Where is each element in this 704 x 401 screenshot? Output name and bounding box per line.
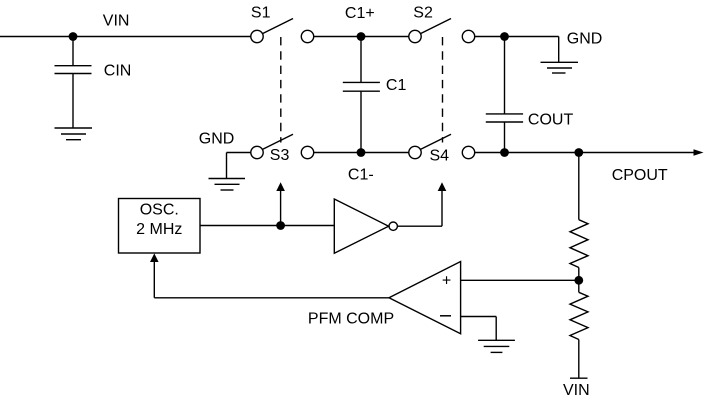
svg-text:CPOUT: CPOUT — [612, 167, 668, 184]
svg-text:COUT: COUT — [528, 112, 574, 129]
svg-text:VIN: VIN — [563, 382, 590, 399]
svg-text:2 MHz: 2 MHz — [136, 221, 182, 238]
svg-text:CIN: CIN — [104, 62, 132, 79]
svg-text:+: + — [442, 273, 451, 290]
svg-text:GND: GND — [567, 31, 603, 48]
svg-text:OSC.: OSC. — [140, 202, 179, 219]
svg-text:S1: S1 — [251, 4, 271, 21]
svg-text:S4: S4 — [430, 148, 450, 165]
svg-text:C1+: C1+ — [345, 5, 375, 22]
svg-text:C1: C1 — [386, 77, 407, 94]
svg-text:VIN: VIN — [103, 13, 130, 30]
svg-text:S2: S2 — [413, 5, 433, 22]
svg-text:PFM COMP: PFM COMP — [308, 310, 394, 327]
svg-text:S3: S3 — [270, 147, 290, 164]
svg-text:C1-: C1- — [348, 166, 374, 183]
svg-text:GND: GND — [199, 131, 235, 148]
